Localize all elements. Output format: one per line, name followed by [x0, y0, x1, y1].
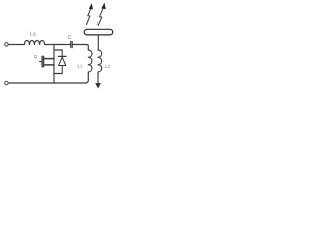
inductor L1 (primary coil) — [88, 50, 92, 80]
gate lead — [40, 61, 42, 63]
wire block top — [54, 49, 62, 51]
wire rail (drain/source vertical) — [53, 45, 55, 84]
svg-text:J: J — [96, 21, 98, 26]
wire top rail middle — [45, 44, 70, 46]
terminal T1 (top-left input) — [5, 43, 8, 47]
transistor Q (MOSFET) — [40, 56, 55, 67]
drain lead — [44, 58, 54, 60]
svg-text:C: C — [68, 35, 72, 41]
radiation arrow 2 — [98, 3, 105, 25]
antenna top plate — [84, 29, 113, 35]
svg-text:La: La — [30, 32, 36, 38]
inductor La — [24, 40, 44, 44]
svg-text:L2: L2 — [105, 64, 110, 69]
svg-text:L1: L1 — [78, 63, 84, 68]
wire top rail right — [72, 45, 88, 51]
capacitor C — [71, 42, 73, 48]
wire block bottom — [54, 73, 62, 75]
wire plate to L2 — [97, 35, 99, 50]
terminal T2 (bottom-left input) — [5, 81, 8, 85]
channel bar — [43, 56, 45, 67]
svg-text:Q: Q — [34, 54, 38, 59]
source lead — [44, 64, 54, 66]
ground arrow (earth) — [97, 72, 99, 84]
diode D1 — [58, 50, 66, 74]
inductor L2 (antenna coil) — [98, 50, 102, 72]
wire top rail left — [9, 44, 25, 46]
radiation arrow 1 — [87, 4, 93, 25]
wire bottom rail — [9, 80, 89, 84]
gate bar — [41, 56, 43, 67]
